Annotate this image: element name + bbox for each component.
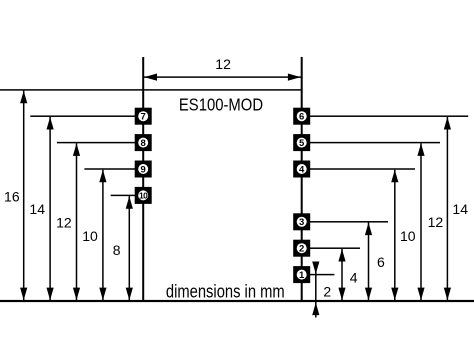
svg-text:4: 4 xyxy=(299,164,305,175)
svg-text:3: 3 xyxy=(299,217,304,228)
svg-text:10: 10 xyxy=(139,191,148,201)
svg-text:16: 16 xyxy=(4,188,20,204)
svg-text:12: 12 xyxy=(428,214,444,230)
dimension 10 (right) xyxy=(391,170,416,301)
pin 7 reference line xyxy=(30,115,143,117)
pin 9 reference line xyxy=(84,168,143,170)
dimension 12 (module width, top) xyxy=(144,56,301,81)
svg-text:12: 12 xyxy=(56,215,72,231)
pin 5 reference line xyxy=(302,142,440,144)
module right edge line xyxy=(301,57,303,301)
pin 7 xyxy=(135,108,152,125)
pin 4 reference line xyxy=(302,168,415,170)
dimension 2 (right, outside arrows) xyxy=(312,262,331,318)
dimension 6 (right) xyxy=(365,223,385,302)
svg-text:9: 9 xyxy=(141,164,146,175)
svg-text:ES100-MOD: ES100-MOD xyxy=(179,95,263,115)
pin 8 reference line xyxy=(57,142,143,144)
svg-text:14: 14 xyxy=(29,201,45,217)
pin 2 reference line xyxy=(302,247,360,249)
dimension 8 (left) xyxy=(113,196,133,301)
svg-text:dimensions in mm: dimensions in mm xyxy=(166,281,285,302)
pin 4 xyxy=(293,161,310,178)
label dimensions in mm xyxy=(166,281,285,302)
svg-text:8: 8 xyxy=(141,138,146,149)
pin 1 reference line xyxy=(302,274,335,276)
label ES100-MOD xyxy=(179,95,263,115)
dimension 14 (left) xyxy=(29,117,53,301)
svg-text:6: 6 xyxy=(377,254,385,270)
svg-text:6: 6 xyxy=(299,112,304,123)
baseline (0 mm ground reference line) xyxy=(0,300,474,302)
pin 6 reference line xyxy=(302,115,469,117)
pin 2 xyxy=(293,240,310,257)
svg-text:10: 10 xyxy=(82,228,98,244)
pin 3 xyxy=(293,213,310,230)
pin 6 xyxy=(293,108,310,125)
dimension 12 (right) xyxy=(417,143,443,301)
module top edge / 16 mm reference line xyxy=(0,89,302,91)
svg-text:12: 12 xyxy=(215,56,231,72)
pin 3 reference line xyxy=(302,221,388,223)
dimension 4 (right) xyxy=(338,249,357,301)
svg-text:5: 5 xyxy=(299,138,305,149)
svg-text:2: 2 xyxy=(323,283,331,299)
svg-text:2: 2 xyxy=(299,244,304,255)
pin 1 xyxy=(293,266,310,283)
dimension 14 (right) xyxy=(444,117,468,301)
pin 8 xyxy=(135,134,152,151)
pin 9 xyxy=(135,161,152,178)
dimension 16 (left) xyxy=(4,91,27,301)
svg-text:14: 14 xyxy=(452,201,468,217)
svg-text:10: 10 xyxy=(400,228,416,244)
svg-text:7: 7 xyxy=(141,112,146,123)
module left edge line xyxy=(142,57,144,301)
svg-text:4: 4 xyxy=(350,270,358,286)
dimension 12 (left) xyxy=(56,143,80,301)
pin 5 xyxy=(293,134,310,151)
pin 10 xyxy=(135,187,152,204)
dimension 10 (left) xyxy=(82,170,106,301)
svg-text:1: 1 xyxy=(299,270,305,281)
svg-text:8: 8 xyxy=(113,242,121,258)
pin 10 reference line xyxy=(111,195,144,197)
